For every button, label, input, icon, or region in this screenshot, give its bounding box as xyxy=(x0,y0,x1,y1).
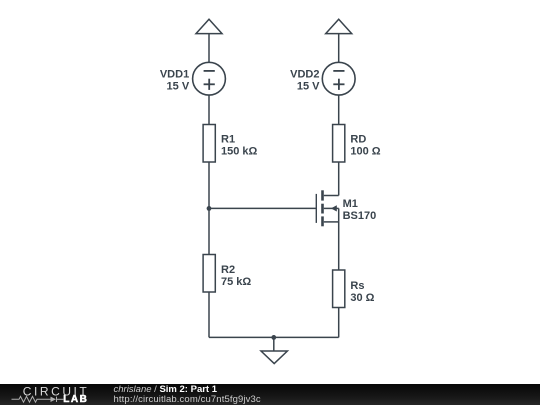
wire (bottom rail) xyxy=(209,336,339,338)
wire (gate) xyxy=(209,207,316,209)
svg-text:75 kΩ: 75 kΩ xyxy=(221,276,251,288)
wire xyxy=(208,95,210,124)
net flag VDD2 xyxy=(326,19,352,33)
resistor RD xyxy=(333,125,345,163)
svg-text:15 V: 15 V xyxy=(297,81,320,93)
svg-text:150 kΩ: 150 kΩ xyxy=(221,145,258,157)
svg-text:R1: R1 xyxy=(221,133,235,145)
footer bar xyxy=(0,384,540,405)
ground xyxy=(261,337,287,363)
svg-text:M1: M1 xyxy=(343,198,358,210)
resistor Rs xyxy=(333,270,345,308)
net flag VDD1 xyxy=(196,19,222,33)
node (gate junction) xyxy=(207,206,212,211)
svg-text:VDD1: VDD1 xyxy=(160,69,189,81)
CircuitLab logo xyxy=(0,384,110,405)
svg-text:R2: R2 xyxy=(221,264,235,276)
wire xyxy=(208,34,210,63)
svg-text:30 Ω: 30 Ω xyxy=(350,292,374,304)
transistor M1 xyxy=(316,190,338,226)
resistor R1 xyxy=(203,125,215,163)
resistor R2 xyxy=(203,255,215,293)
wire xyxy=(338,95,340,124)
svg-text:100 Ω: 100 Ω xyxy=(350,145,380,157)
wire xyxy=(338,34,340,63)
svg-text:VDD2: VDD2 xyxy=(290,69,319,81)
svg-text:RD: RD xyxy=(350,133,366,145)
wire xyxy=(338,308,340,338)
svg-text:BS170: BS170 xyxy=(343,210,377,222)
footer credit text xyxy=(114,385,218,394)
svg-text:LAB: LAB xyxy=(63,394,88,405)
wire (drain) xyxy=(338,162,340,196)
wire xyxy=(208,292,210,337)
wire xyxy=(208,162,210,255)
svg-text:Rs: Rs xyxy=(350,280,364,292)
voltage source VDD2 xyxy=(322,62,355,95)
svg-text:15 V: 15 V xyxy=(167,81,190,93)
wire (source) xyxy=(338,222,340,270)
voltage source VDD1 xyxy=(193,62,226,95)
node (ground junction) xyxy=(271,335,276,340)
